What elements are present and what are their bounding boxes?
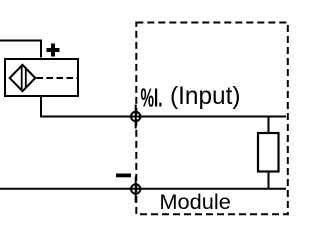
svg-text:%I.: %I.: [141, 84, 163, 112]
svg-text:Module: Module: [159, 191, 231, 214]
svg-text:(Input): (Input): [170, 82, 241, 110]
